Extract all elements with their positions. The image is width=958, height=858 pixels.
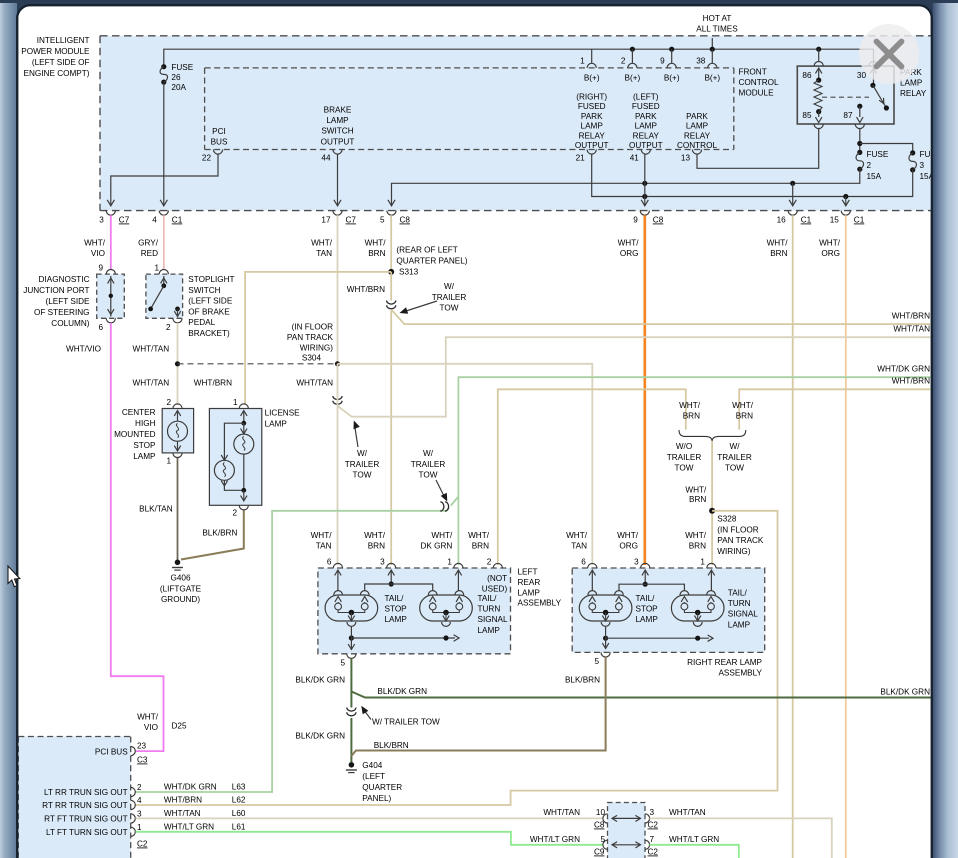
svg-text:WHT/: WHT/ <box>566 531 588 540</box>
wire WHT/VIO into pin23 <box>136 747 164 751</box>
svg-text:WHT/DK GRN: WHT/DK GRN <box>164 783 217 792</box>
svg-text:C8: C8 <box>653 216 664 225</box>
svg-text:(LEFT SIDE: (LEFT SIDE <box>188 297 233 306</box>
label WHT/BRN right lamp <box>685 531 707 551</box>
svg-text:G406: G406 <box>170 574 190 583</box>
svg-text:BRACKET): BRACKET) <box>188 329 230 338</box>
svg-text:DIAGNOSTIC: DIAGNOSTIC <box>39 275 90 284</box>
front control module box <box>205 68 734 150</box>
label BLK/DK GRN right edge <box>880 688 930 697</box>
svg-text:GRY/: GRY/ <box>138 239 159 248</box>
svg-text:2: 2 <box>621 57 626 66</box>
label BLK/DK GRN 1 <box>295 676 345 685</box>
svg-text:BRN: BRN <box>683 412 700 421</box>
ground G404 <box>346 762 357 773</box>
svg-text:LAMP: LAMP <box>686 122 709 131</box>
svg-text:FUSED: FUSED <box>578 102 606 111</box>
svg-text:BRAKE: BRAKE <box>324 106 352 115</box>
svg-text:BLK/DK GRN: BLK/DK GRN <box>880 688 930 697</box>
license bulb 1 <box>234 423 254 490</box>
svg-text:STOPLIGHT: STOPLIGHT <box>188 275 234 284</box>
wire BLK/BRN right lamp ground <box>351 657 605 756</box>
svg-text:WHT/: WHT/ <box>685 531 707 540</box>
label C2 bottom left <box>137 840 148 849</box>
wire fuse2 net to pins <box>388 169 860 206</box>
svg-text:WHT/TAN: WHT/TAN <box>133 379 170 388</box>
svg-text:VIO: VIO <box>144 723 158 732</box>
svg-text:CONTROL: CONTROL <box>677 141 717 150</box>
svg-text:LAMP: LAMP <box>635 122 658 131</box>
svg-text:WHT/: WHT/ <box>732 401 754 410</box>
svg-text:WHT/TAN: WHT/TAN <box>296 379 333 388</box>
svg-text:WHT/: WHT/ <box>431 531 453 540</box>
svg-text:3: 3 <box>650 808 655 817</box>
svg-text:S328: S328 <box>717 515 737 524</box>
IPM pin 17 C7 <box>321 211 356 225</box>
svg-text:B(+): B(+) <box>584 74 600 83</box>
FCM pin 3 RT FT <box>44 809 142 823</box>
diag port pin 6 <box>98 318 115 332</box>
right lamp pin 6 <box>581 558 597 569</box>
svg-text:JUNCTION PORT: JUNCTION PORT <box>23 286 89 295</box>
svg-text:15: 15 <box>830 216 840 225</box>
svg-text:13: 13 <box>681 154 691 163</box>
label WHT/VIO <box>84 239 106 259</box>
svg-text:RT FT TRUN SIG OUT: RT FT TRUN SIG OUT <box>44 815 128 824</box>
svg-text:WHT/: WHT/ <box>468 531 490 540</box>
wire WHT/TAN stoplight out <box>177 323 179 405</box>
left rear lamp assembly box <box>318 568 511 654</box>
svg-text:1: 1 <box>580 57 585 66</box>
svg-text:WHT/: WHT/ <box>617 531 639 540</box>
svg-text:TAIL/: TAIL/ <box>728 589 748 598</box>
svg-text:9: 9 <box>660 57 665 66</box>
svg-text:TRAILER: TRAILER <box>411 460 446 469</box>
svg-text:15A: 15A <box>867 172 882 181</box>
svg-text:C7: C7 <box>119 216 130 225</box>
label front control module <box>739 68 779 98</box>
svg-text:2: 2 <box>166 398 171 407</box>
svg-text:STOP: STOP <box>133 441 156 450</box>
wire pin13 to relay85 <box>697 129 819 169</box>
label left fused park lamp relay output <box>629 93 663 151</box>
label WHT/TAN below splice right <box>296 379 333 388</box>
svg-text:L60: L60 <box>232 809 246 818</box>
svg-text:2: 2 <box>487 558 492 567</box>
label left rear lamp assembly <box>518 568 562 608</box>
label W TRAILER TOW g404 <box>361 706 440 727</box>
label WHT/ORG right lamp <box>617 531 639 551</box>
svg-text:TAN: TAN <box>571 542 587 551</box>
IPM pin 16 C1 <box>777 211 812 225</box>
diag port internal wire <box>108 276 114 317</box>
chmsl bulb <box>168 411 188 452</box>
svg-text:TAIL/: TAIL/ <box>478 594 498 603</box>
label S328 <box>717 515 764 556</box>
svg-text:26: 26 <box>171 73 181 82</box>
svg-text:C1: C1 <box>801 216 812 225</box>
relay pin 30 and switch <box>857 61 889 110</box>
wire WHT/LT GRN conn right out <box>650 845 739 858</box>
svg-text:WHT/: WHT/ <box>311 531 333 540</box>
svg-text:(LIFTGATE: (LIFTGATE <box>160 584 202 593</box>
svg-text:TAIL/: TAIL/ <box>385 594 405 603</box>
label WHT/BRN pin2 <box>468 531 490 551</box>
park lamp relay box <box>797 66 894 124</box>
svg-text:PCI: PCI <box>212 127 226 136</box>
label BLK/TAN <box>139 505 173 514</box>
splice S328 <box>709 508 715 514</box>
wire WHT/TAN conn right out <box>650 818 832 858</box>
label WHT/ORG 15C1 <box>819 239 841 259</box>
label WHT/DK GRN right edge <box>877 365 930 374</box>
label tail/turn signal lamp right <box>728 589 758 630</box>
svg-text:3: 3 <box>380 558 385 567</box>
left lamp pin 1 <box>447 558 463 569</box>
label W/TRAILER TOW tan <box>345 421 380 480</box>
label intelligent power module <box>21 36 90 78</box>
svg-text:FUSE: FUSE <box>171 63 193 72</box>
svg-text:WHT/BRN: WHT/BRN <box>164 796 202 805</box>
svg-text:LICENSE: LICENSE <box>265 409 301 418</box>
svg-text:WHT/LT GRN: WHT/LT GRN <box>164 822 214 831</box>
connector split S313 trailer tow <box>387 301 932 325</box>
svg-text:BLK/TAN: BLK/TAN <box>139 505 173 514</box>
window top bar <box>0 0 958 24</box>
svg-text:WHT/: WHT/ <box>311 239 333 248</box>
fuse F2 15A <box>856 150 889 181</box>
label WHT/BRN above S328 <box>685 486 707 505</box>
label WHT/BRN license feed <box>194 379 232 388</box>
ground G406 <box>172 560 183 571</box>
svg-text:1: 1 <box>447 558 452 567</box>
svg-text:2: 2 <box>166 323 171 332</box>
FCM pin 22 <box>202 150 223 163</box>
svg-text:MODULE: MODULE <box>739 89 775 98</box>
svg-text:FUSE: FUSE <box>867 150 889 159</box>
left tail/turn signal lamp <box>420 591 473 627</box>
wire WHT/BRN S313 down <box>390 272 392 565</box>
svg-text:REAR: REAR <box>518 578 541 587</box>
svg-text:WHT/: WHT/ <box>618 239 640 248</box>
label WHT/BRN 5C8 <box>365 239 387 259</box>
label WHT/BRN stub right <box>732 401 754 421</box>
right tail/turn signal lamp <box>671 591 724 627</box>
svg-text:LAMP: LAMP <box>728 620 751 629</box>
svg-text:LT FT TURN SIG OUT: LT FT TURN SIG OUT <box>46 828 128 837</box>
label W/ TRAILER TOW brace <box>717 442 752 473</box>
svg-text:BRN: BRN <box>368 542 385 551</box>
svg-text:TAN: TAN <box>316 249 332 258</box>
svg-text:3: 3 <box>920 161 925 170</box>
svg-text:WHT/: WHT/ <box>679 401 701 410</box>
label G406 <box>160 574 202 605</box>
svg-text:W/ TRAILER TOW: W/ TRAILER TOW <box>372 718 440 727</box>
label BLK/BRN g404 <box>374 741 409 750</box>
wire WHT/ORG 15C1 down <box>845 215 847 858</box>
splice S304 dashed link <box>175 361 340 366</box>
fuse F3 15A <box>909 150 942 181</box>
svg-text:PARK: PARK <box>635 112 657 121</box>
svg-text:20A: 20A <box>171 83 186 92</box>
svg-text:ALL TIMES: ALL TIMES <box>696 25 738 34</box>
svg-text:QUARTER: QUARTER <box>362 783 402 792</box>
wire WHT/BRN brace to S328 <box>711 441 713 565</box>
svg-text:5: 5 <box>594 657 599 666</box>
svg-text:B(+): B(+) <box>625 74 641 83</box>
svg-text:POWER MODULE: POWER MODULE <box>21 47 90 56</box>
svg-text:LAMP: LAMP <box>265 420 288 429</box>
FCM pin 9 B+ <box>660 57 680 83</box>
svg-text:PARK: PARK <box>581 112 603 121</box>
label WHT/BRN 16C1 <box>767 239 789 259</box>
label GRY/RED <box>138 239 159 259</box>
svg-text:C2: C2 <box>137 840 148 849</box>
stoplight switch blade <box>148 276 167 311</box>
svg-text:WHT/: WHT/ <box>84 239 106 248</box>
FCM pin 21 <box>576 150 597 163</box>
FCM pin 13 <box>681 150 702 163</box>
svg-text:SIGNAL: SIGNAL <box>478 615 508 624</box>
stoplight switch box <box>146 274 183 318</box>
label S313 <box>396 246 467 277</box>
svg-text:WHT/BRN: WHT/BRN <box>892 312 930 321</box>
label W/TRAILER TOW S313 <box>400 282 467 314</box>
svg-text:(LEFT): (LEFT) <box>633 93 659 102</box>
svg-text:5: 5 <box>340 659 345 668</box>
svg-text:BRN: BRN <box>736 412 753 421</box>
svg-text:PCI BUS: PCI BUS <box>95 748 128 757</box>
wire GRY/RED 4C1 to stoplight <box>163 215 165 269</box>
svg-text:TRAILER: TRAILER <box>432 293 467 302</box>
window right strip <box>933 3 958 858</box>
label WHT/VIO lower <box>66 345 101 354</box>
wire BLK/BRN license ground <box>181 510 244 560</box>
svg-text:C8: C8 <box>594 821 605 830</box>
svg-text:OF BRAKE: OF BRAKE <box>188 307 230 316</box>
FCM pin 1 B+ <box>580 57 600 83</box>
wire WHT/TAN S304 to right lamp <box>338 364 593 565</box>
wire pin41 to 9C8 <box>641 154 648 206</box>
svg-text:5: 5 <box>380 216 385 225</box>
svg-text:CENTER: CENTER <box>122 408 156 417</box>
svg-text:WHT/: WHT/ <box>819 239 841 248</box>
svg-text:4: 4 <box>137 796 142 805</box>
connector split BLK/DK GRN trailer tow <box>347 692 932 719</box>
svg-text:2: 2 <box>867 161 872 170</box>
label WHT/BRN right edge 1 <box>892 312 930 321</box>
connector row 2 <box>594 835 658 857</box>
svg-text:OUTPUT: OUTPUT <box>575 141 609 150</box>
diagnostic junction port box <box>97 274 125 318</box>
svg-text:10: 10 <box>596 808 606 817</box>
svg-text:C1: C1 <box>172 216 183 225</box>
FCM pin 44 <box>321 150 342 163</box>
svg-text:BLK/BRN: BLK/BRN <box>202 529 237 538</box>
svg-text:TOW: TOW <box>353 471 372 480</box>
svg-text:WIRING): WIRING) <box>717 547 750 556</box>
svg-text:CONTROL: CONTROL <box>739 78 779 87</box>
IPM pin 4 C1 <box>152 211 182 225</box>
label WHT/VIO d25 <box>137 713 187 733</box>
label WHT/LT GRN L61 <box>164 822 246 831</box>
license internal wiring top <box>224 411 247 460</box>
svg-text:2: 2 <box>232 509 237 518</box>
left tail/stop lamp <box>325 591 378 627</box>
label WHT/BRN stub left <box>679 401 701 421</box>
svg-text:WHT/TAN: WHT/TAN <box>133 345 170 354</box>
B+ bus wire <box>164 38 874 68</box>
label diagnostic junction port <box>23 275 90 328</box>
svg-text:86: 86 <box>802 71 812 80</box>
label hot at all times <box>696 14 738 34</box>
label tail/turn signal lamp left <box>478 594 508 635</box>
svg-text:B(+): B(+) <box>664 74 680 83</box>
IPM pin 5 C8 <box>380 211 410 225</box>
svg-text:(LEFT SIDE OF: (LEFT SIDE OF <box>32 58 90 67</box>
svg-text:WHT/: WHT/ <box>137 713 159 722</box>
close button <box>859 24 919 84</box>
wire pin22 to 3C7 <box>107 154 218 206</box>
svg-text:WHT/: WHT/ <box>364 531 386 540</box>
wire WHT/DK GRN from right edge <box>458 377 931 565</box>
label park lamp relay control <box>677 112 717 150</box>
svg-text:BRN: BRN <box>472 542 489 551</box>
label brake lamp switch output <box>321 106 355 147</box>
svg-text:1: 1 <box>700 558 705 567</box>
svg-text:LAMP: LAMP <box>636 615 659 624</box>
left lamp pin 6 <box>327 558 343 569</box>
svg-text:PAN TRACK: PAN TRACK <box>717 536 764 545</box>
svg-text:RELAY: RELAY <box>900 89 927 98</box>
svg-text:(IN FLOOR: (IN FLOOR <box>292 323 333 332</box>
label WHT/TAN L60 <box>164 809 246 818</box>
svg-text:(REAR OF LEFT: (REAR OF LEFT <box>396 246 457 255</box>
svg-text:(NOT: (NOT <box>487 574 507 583</box>
right tail/stop lamp <box>579 591 632 627</box>
wire fuse3 net to pins <box>592 154 913 206</box>
license pin 1 <box>233 398 248 409</box>
svg-text:BRN: BRN <box>770 249 787 258</box>
svg-text:(IN FLOOR: (IN FLOOR <box>717 525 758 534</box>
svg-text:44: 44 <box>321 154 331 163</box>
FCM pin 38 B+ <box>696 57 720 83</box>
svg-text:LAMP: LAMP <box>326 116 349 125</box>
FCM pin 41 <box>630 150 651 163</box>
svg-text:L63: L63 <box>232 783 246 792</box>
svg-text:TRAILER: TRAILER <box>717 453 752 462</box>
license lamp box <box>209 409 261 506</box>
svg-text:(LEFT SIDE: (LEFT SIDE <box>46 297 91 306</box>
svg-text:RELAY: RELAY <box>633 131 660 140</box>
right lamp ground rail <box>602 627 713 649</box>
right lamp pin 3 <box>634 558 650 569</box>
label BLK/DK GRN 2 <box>377 687 427 696</box>
svg-text:85: 85 <box>802 111 812 120</box>
svg-text:QUARTER PANEL): QUARTER PANEL) <box>396 256 467 265</box>
label right fused park lamp relay output <box>575 93 609 151</box>
relay coil <box>814 78 822 123</box>
svg-text:2: 2 <box>137 783 142 792</box>
svg-text:HOT AT: HOT AT <box>703 14 732 23</box>
svg-text:SWITCH: SWITCH <box>321 127 353 136</box>
label W/O TRAILER TOW <box>667 442 702 473</box>
wire WHT/TAN to left lamp <box>337 364 339 565</box>
svg-text:WHT/TAN: WHT/TAN <box>543 808 580 817</box>
wire WHT/BRN 5C8 down to S313 <box>390 215 392 272</box>
svg-text:WHT/: WHT/ <box>767 239 789 248</box>
connector C8/C2 box <box>608 803 646 858</box>
brace <box>679 430 746 441</box>
svg-text:OUTPUT: OUTPUT <box>321 137 355 146</box>
svg-text:BRN: BRN <box>368 249 385 258</box>
svg-text:LAMP: LAMP <box>478 626 501 635</box>
wire BLK/DK GRN left lamp ground <box>350 658 352 762</box>
relay pin 85 <box>802 111 823 128</box>
label WHT/DK GRN L63 <box>164 783 246 792</box>
svg-text:TRAILER: TRAILER <box>345 460 380 469</box>
svg-text:TOW: TOW <box>725 464 744 473</box>
label not used <box>482 574 508 593</box>
svg-text:TAN: TAN <box>316 542 332 551</box>
IPM pin 15 C1 <box>830 211 865 225</box>
label WHT/TAN right edge <box>893 325 930 334</box>
svg-text:C2: C2 <box>648 848 659 857</box>
svg-text:SIGNAL: SIGNAL <box>728 610 758 619</box>
FCM pin 23 PCI BUS <box>95 742 148 765</box>
svg-text:D25: D25 <box>172 722 187 731</box>
connector split WHT/TAN trailer tow <box>333 337 931 417</box>
svg-text:S304: S304 <box>302 354 322 363</box>
wire BLK/TAN chmsl ground <box>177 458 179 563</box>
svg-text:TAIL/: TAIL/ <box>636 594 656 603</box>
label W/TRAILER TOW green <box>411 449 448 502</box>
svg-text:WHT/LT GRN: WHT/LT GRN <box>669 835 719 844</box>
svg-text:WHT/TAN: WHT/TAN <box>893 325 930 334</box>
label PCI BUS <box>211 127 228 147</box>
svg-text:LT RR TRUN SIG OUT: LT RR TRUN SIG OUT <box>44 788 128 797</box>
left lamp pin 2 <box>487 558 503 569</box>
svg-text:41: 41 <box>630 154 640 163</box>
license pin 2 out <box>232 490 248 517</box>
wire WHT/BRN w/tow from right edge <box>739 389 931 429</box>
svg-text:BLK/DK GRN: BLK/DK GRN <box>295 676 345 685</box>
svg-text:TURN: TURN <box>728 599 751 608</box>
svg-text:VIO: VIO <box>91 249 105 258</box>
FCM pin 1 LT FT <box>46 823 142 837</box>
svg-text:WHT/DK GRN: WHT/DK GRN <box>877 365 930 374</box>
label WHT/TAN conn right <box>669 808 706 817</box>
svg-text:17: 17 <box>321 216 331 225</box>
svg-text:WHT/TAN: WHT/TAN <box>164 809 201 818</box>
label WHT/ORG 9C8 <box>618 239 640 259</box>
label WHT/BRN S313 <box>347 285 385 294</box>
svg-text:3: 3 <box>137 809 142 818</box>
svg-text:1: 1 <box>137 823 142 832</box>
svg-text:23: 23 <box>137 742 147 751</box>
svg-text:ENGINE COMPT): ENGINE COMPT) <box>24 69 90 78</box>
svg-text:OF STEERING: OF STEERING <box>34 308 90 317</box>
label park lamp relay <box>900 68 927 98</box>
right lamp pin wires inside <box>589 570 715 591</box>
svg-text:RELAY: RELAY <box>684 131 711 140</box>
svg-text:22: 22 <box>202 154 212 163</box>
svg-text:38: 38 <box>696 57 706 66</box>
svg-text:WHT/BRN: WHT/BRN <box>892 377 930 386</box>
svg-text:L61: L61 <box>232 822 246 831</box>
svg-text:HIGH: HIGH <box>135 419 156 428</box>
svg-text:ORG: ORG <box>821 249 840 258</box>
